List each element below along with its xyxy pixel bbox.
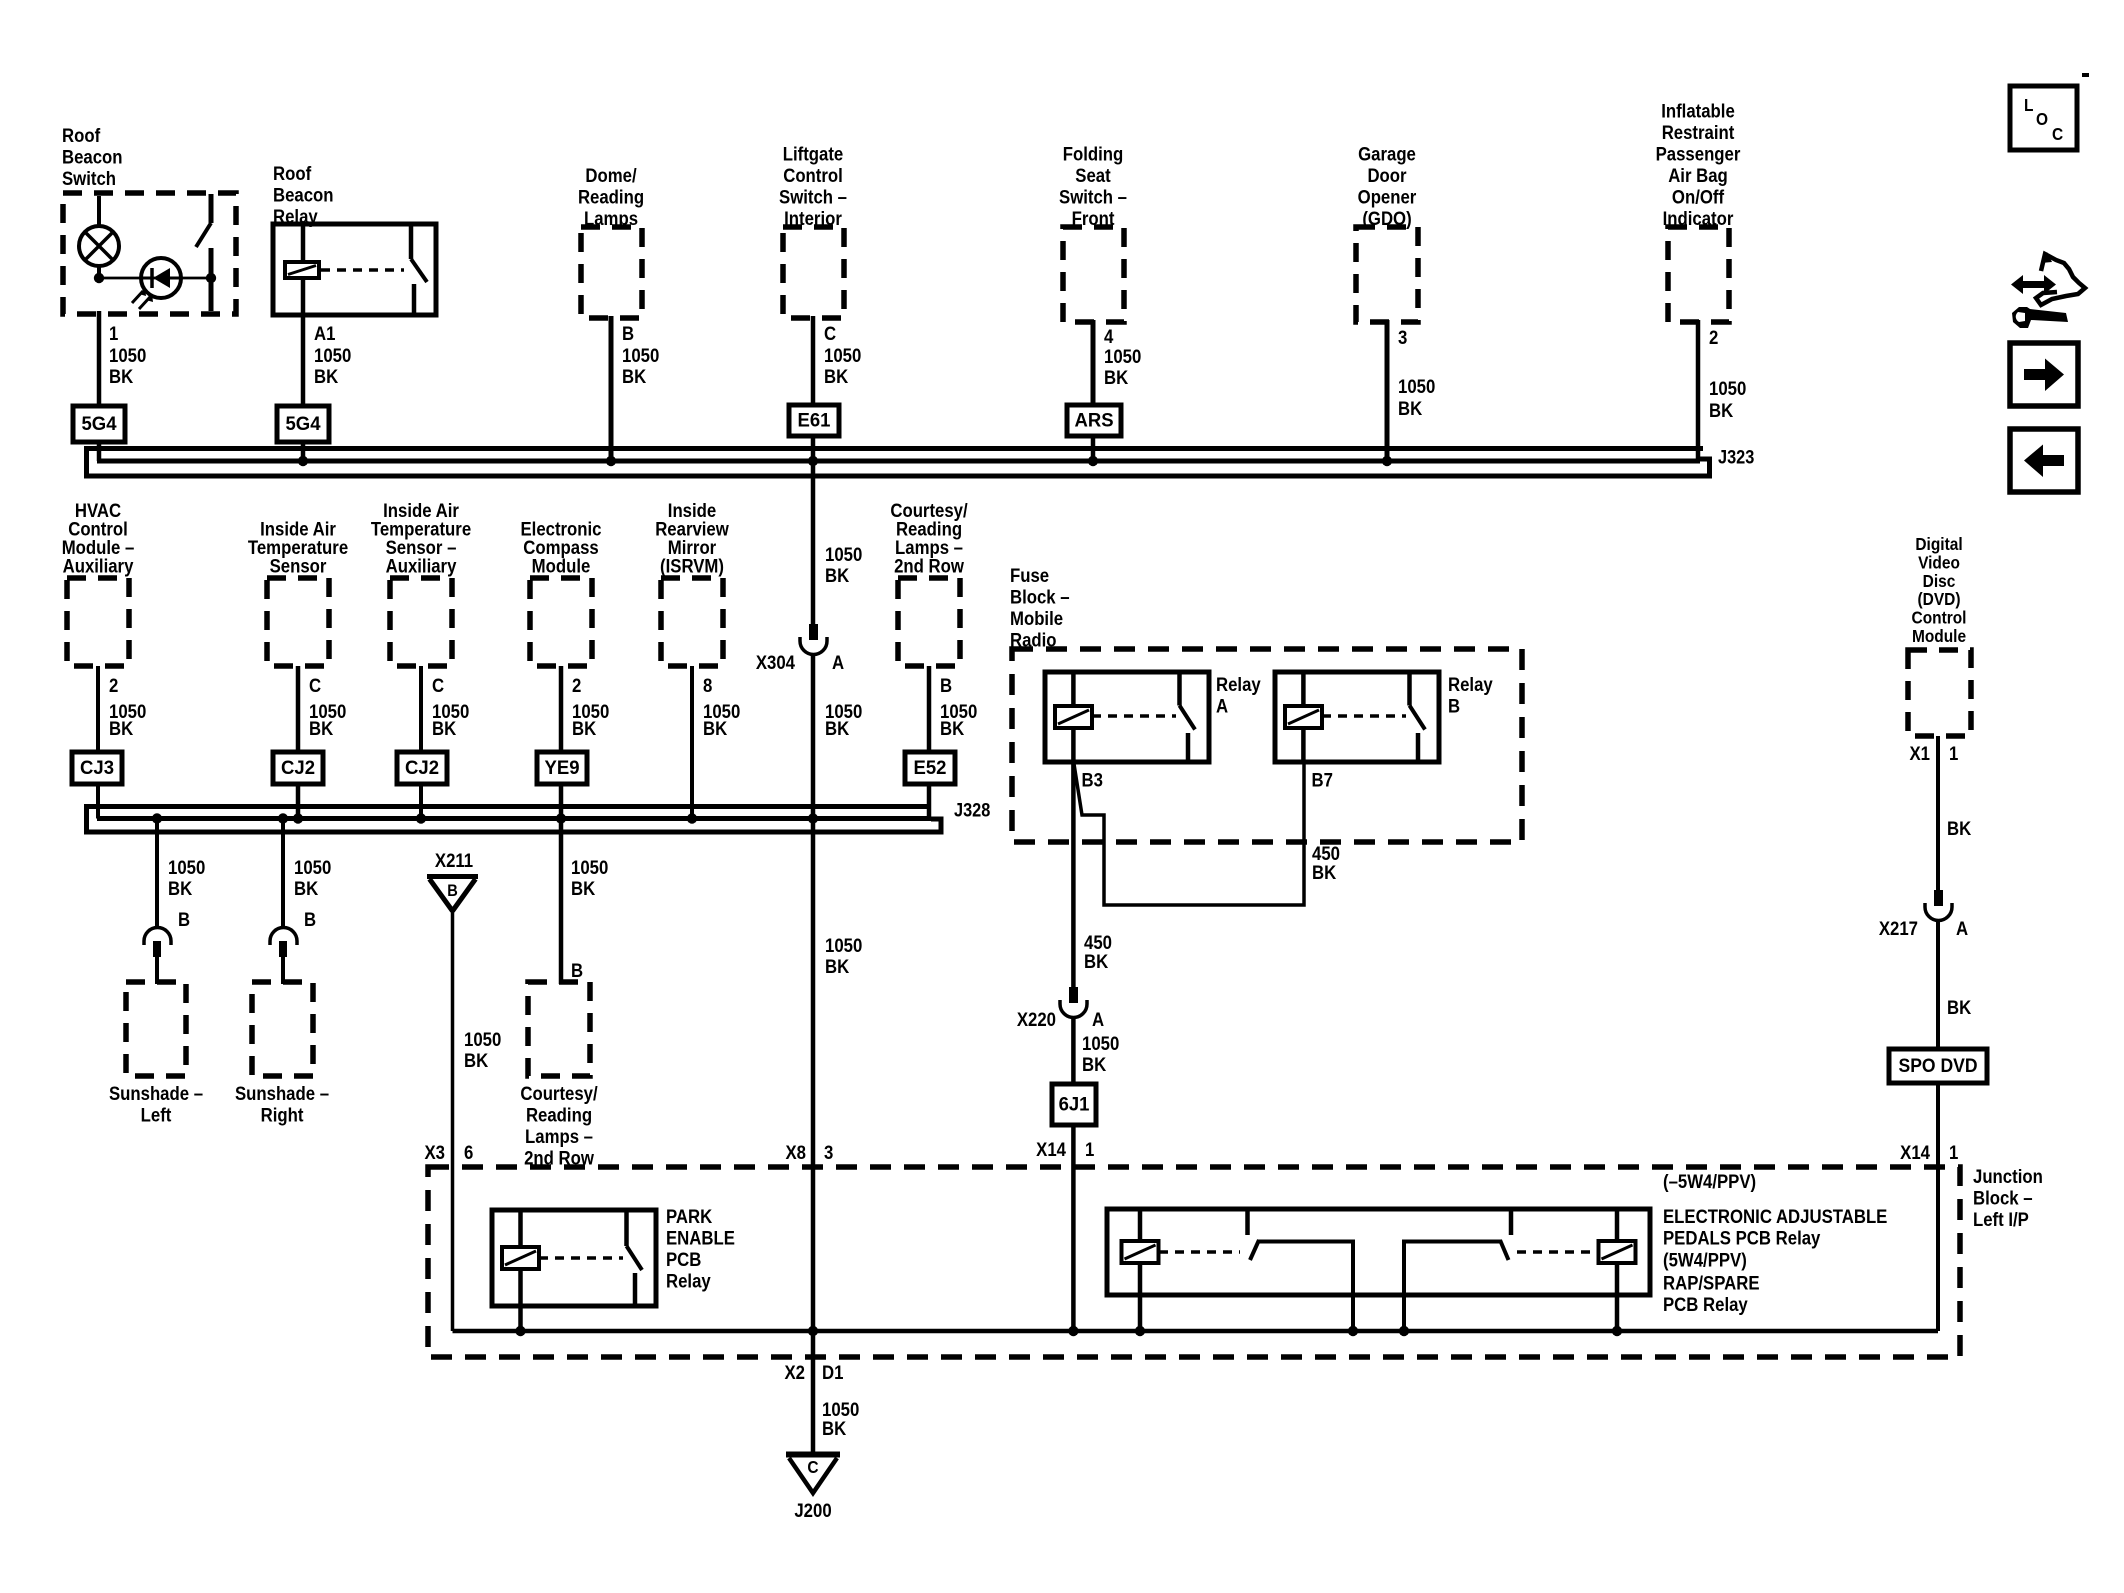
wire Compass pin 2 to YE9	[559, 666, 564, 752]
svg-text:PCB: PCB	[666, 1249, 701, 1270]
svg-text:BK: BK	[825, 718, 849, 739]
svg-text:Switch –: Switch –	[1059, 186, 1127, 207]
svg-text:1: 1	[1085, 1139, 1094, 1160]
svg-text:ARS: ARS	[1074, 410, 1113, 432]
wire 5G4 relay to bus J323	[301, 442, 306, 461]
component Inside Air Temperature Sensor (dashed box)	[267, 578, 329, 666]
svg-text:BK: BK	[824, 366, 848, 387]
junction dot X8 wire on junction bus	[808, 1326, 818, 1336]
relay A dashed link	[1092, 714, 1176, 718]
splice pack bus J328 (inner line)	[97, 816, 931, 821]
connector CJ2 (Temp Sensor)	[273, 752, 323, 784]
svg-text:L: L	[2024, 95, 2033, 115]
svg-text:Junction: Junction	[1973, 1166, 2043, 1187]
connector SPO DVD	[1889, 1049, 1987, 1083]
splice pack bus J328 (outer)	[87, 807, 942, 833]
svg-text:RAP/SPARE: RAP/SPARE	[1663, 1272, 1760, 1293]
junction dots on J328	[152, 813, 162, 823]
wire GDO pin 3 to bus J323	[1385, 320, 1390, 461]
svg-text:Sensor: Sensor	[270, 555, 327, 576]
svg-text:Reading: Reading	[578, 186, 644, 207]
wire ARS to bus J323	[1091, 436, 1096, 461]
svg-text:(DVD): (DVD)	[1918, 589, 1961, 609]
svg-text:J328: J328	[954, 800, 990, 821]
svg-text:CJ2: CJ2	[405, 758, 439, 780]
component Liftgate Control Switch (dashed box)	[783, 227, 844, 318]
svg-text:B: B	[940, 675, 952, 696]
svg-text:BK: BK	[432, 718, 456, 739]
wire X304 to bus J328	[811, 654, 816, 819]
PARK ENABLE PCB Relay box	[492, 1210, 656, 1306]
wire YE9 bus down to Courtesy Lamps 2nd Row box	[559, 819, 564, 985]
svg-text:J323: J323	[1718, 447, 1754, 468]
svg-text:1050: 1050	[1709, 378, 1746, 399]
component Inflatable Restraint Indicator (dashed box)	[1668, 227, 1729, 322]
wire Temp Sensor Aux pin C to CJ2	[419, 666, 423, 752]
svg-text:Relay: Relay	[1216, 674, 1262, 695]
svg-text:Fuse: Fuse	[1010, 565, 1049, 586]
svg-text:Courtesy/: Courtesy/	[520, 1083, 597, 1104]
svg-text:BK: BK	[1947, 818, 1971, 839]
svg-text:BK: BK	[1947, 997, 1971, 1018]
svg-text:1050: 1050	[622, 345, 659, 366]
svg-text:Seat: Seat	[1075, 165, 1110, 186]
svg-text:CJ3: CJ3	[80, 758, 114, 780]
stray mark	[2082, 73, 2089, 77]
svg-text:1050: 1050	[571, 857, 608, 878]
wire X2 D1 down to ground J200	[811, 1331, 816, 1455]
svg-text:Relay: Relay	[1448, 674, 1494, 695]
svg-text:1050: 1050	[314, 345, 351, 366]
component Courtesy/Reading Lamps 2nd Row (dashed box, row2)	[898, 578, 960, 666]
junction dot left switch to bus	[1348, 1326, 1358, 1336]
svg-text:E52: E52	[914, 758, 947, 780]
svg-text:D1: D1	[822, 1362, 843, 1383]
wire X304 bus J328 down to junction block X8 pin 3	[811, 819, 816, 1332]
wire CJ2 aux to bus J328	[419, 784, 423, 819]
svg-text:PCB Relay: PCB Relay	[1663, 1294, 1749, 1315]
wire E61 to bus J323	[811, 436, 816, 461]
svg-text:BK: BK	[1082, 1054, 1106, 1075]
svg-text:Folding: Folding	[1063, 143, 1124, 164]
pedals relay left dashed link	[1159, 1250, 1240, 1254]
wire 5G4 to bus J323	[97, 442, 102, 461]
svg-text:X8: X8	[785, 1142, 806, 1163]
svg-text:Mobile: Mobile	[1010, 608, 1063, 629]
svg-text:X211: X211	[435, 850, 473, 871]
svg-text:Reading: Reading	[526, 1104, 592, 1125]
relay A coil	[1071, 674, 1076, 706]
svg-text:BK: BK	[622, 366, 646, 387]
pedals relay left switch	[1245, 1211, 1250, 1235]
svg-text:Sunshade –: Sunshade –	[109, 1083, 203, 1104]
svg-text:X217: X217	[1879, 918, 1918, 939]
junction dot at switch contact	[206, 273, 216, 283]
PARK relay coil	[518, 1212, 523, 1247]
junction dot right switch to bus	[1399, 1326, 1409, 1336]
wire B3 down to connector X220	[1071, 762, 1076, 987]
splice pack bus J323 (inner line)	[97, 459, 1700, 464]
svg-text:3: 3	[1398, 327, 1407, 348]
wire Dome pin B to bus J323	[609, 316, 614, 461]
svg-text:O: O	[2036, 109, 2048, 129]
pedals relay left coil	[1138, 1211, 1143, 1241]
lamp symbol inside Roof Beacon Switch	[97, 196, 101, 227]
component Fuse Block - Mobile Radio (dashed box)	[1012, 649, 1522, 842]
component Dome/Reading Lamps (dashed box)	[581, 227, 642, 318]
svg-text:8: 8	[703, 675, 712, 696]
junction dot PARK coil to bus	[515, 1326, 525, 1336]
svg-text:Module: Module	[1912, 626, 1966, 646]
pedals relay right dashed link	[1517, 1250, 1598, 1254]
svg-text:Roof: Roof	[62, 125, 101, 146]
component Roof Beacon Relay (solid box)	[273, 224, 436, 315]
pedals relay right coil	[1615, 1211, 1620, 1241]
pedals relay right switch	[1509, 1211, 1514, 1235]
relay switch (Roof Beacon Relay)	[409, 226, 414, 259]
wire Folding Seat pin 4 to ARS	[1091, 320, 1096, 405]
svg-text:4: 4	[1104, 326, 1114, 347]
wire connector to Sunshade Left box	[155, 957, 159, 984]
component Inside Air Temperature Sensor Aux (dashed box)	[390, 578, 452, 666]
svg-text:Switch –: Switch –	[779, 186, 847, 207]
wire Courtesy pin B to E52	[927, 666, 932, 752]
svg-text:X3: X3	[424, 1142, 445, 1163]
wire X217 to SPO DVD	[1936, 920, 1940, 1049]
relay A box (fuse block)	[1045, 672, 1209, 762]
svg-text:3: 3	[824, 1142, 833, 1163]
component Roof Beacon Switch (dashed box)	[63, 193, 236, 314]
svg-text:On/Off: On/Off	[1672, 186, 1725, 207]
svg-text:BK: BK	[825, 956, 849, 977]
component Courtesy/Reading Lamps 2nd Row lower (dashed box)	[528, 982, 590, 1076]
svg-text:BK: BK	[464, 1050, 488, 1071]
svg-text:Restraint: Restraint	[1662, 122, 1735, 143]
svg-text:BK: BK	[314, 366, 338, 387]
relay B box (fuse block)	[1275, 672, 1439, 762]
junction dot X14 6J1 wire on junction bus	[1068, 1326, 1078, 1336]
svg-text:1050: 1050	[464, 1029, 501, 1050]
svg-text:Dome/: Dome/	[585, 165, 636, 186]
svg-text:1050: 1050	[109, 345, 146, 366]
svg-text:BK: BK	[1084, 951, 1108, 972]
connector 5G4 (switch)	[73, 406, 125, 442]
svg-text:ELECTRONIC ADJUSTABLE: ELECTRONIC ADJUSTABLE	[1663, 1206, 1887, 1227]
svg-text:BK: BK	[940, 718, 964, 739]
svg-text:Digital: Digital	[1915, 534, 1962, 554]
wire Liftgate pin C to E61	[811, 316, 816, 405]
wire E52 to bus J328	[927, 784, 932, 819]
svg-text:BK: BK	[1398, 398, 1422, 419]
svg-text:BK: BK	[822, 1418, 846, 1439]
wire CJ2 to bus J328	[296, 784, 301, 819]
wire X220 to 6J1	[1071, 1017, 1076, 1084]
wire Roof Beacon Relay pin A1 down	[301, 313, 306, 407]
wire E61 bus J323 down to connector X304	[811, 461, 816, 624]
connector 6J1	[1052, 1084, 1096, 1125]
svg-text:Block –: Block –	[1010, 586, 1070, 607]
junction dot right coil to bus	[1612, 1326, 1622, 1336]
wire CJ3 to bus J328	[96, 784, 100, 819]
svg-text:2nd Row: 2nd Row	[894, 555, 965, 576]
svg-text:B: B	[1448, 695, 1460, 716]
svg-text:Auxiliary: Auxiliary	[386, 555, 458, 576]
svg-text:B: B	[304, 909, 316, 930]
component Sunshade Left (dashed box)	[126, 982, 186, 1076]
relay A switch	[1177, 674, 1182, 706]
component HVAC Control Module (dashed box)	[67, 578, 129, 666]
connector CJ3	[72, 752, 122, 784]
svg-text:X14: X14	[1036, 1139, 1067, 1160]
svg-text:X1: X1	[1909, 743, 1930, 764]
svg-text:1050: 1050	[294, 857, 331, 878]
svg-text:E61: E61	[798, 410, 831, 432]
component Junction Block - Left I/P (dashed box)	[428, 1167, 1960, 1357]
relay coil (Roof Beacon Relay)	[301, 226, 306, 262]
svg-text:Liftgate: Liftgate	[783, 143, 844, 164]
svg-text:(–5W4/PPV): (–5W4/PPV)	[1663, 1171, 1756, 1192]
splice pack bus J323 (outer)	[87, 449, 1710, 477]
svg-text:Garage: Garage	[1358, 143, 1416, 164]
svg-text:B7: B7	[1312, 769, 1333, 790]
svg-text:C: C	[432, 675, 444, 696]
svg-text:BK: BK	[825, 565, 849, 586]
svg-text:ENABLE: ENABLE	[666, 1227, 735, 1248]
connector CJ2 (Temp Aux)	[397, 752, 447, 784]
wire branch lamp to switch	[99, 277, 211, 280]
svg-text:Disc: Disc	[1923, 571, 1956, 591]
LOC legend box	[2010, 86, 2077, 150]
PARK relay dashed link	[539, 1256, 623, 1260]
svg-text:1050: 1050	[1104, 346, 1141, 367]
svg-text:5G4: 5G4	[286, 414, 321, 436]
svg-text:1: 1	[109, 323, 118, 344]
svg-text:A: A	[1092, 1009, 1104, 1030]
svg-text:(ISRVM): (ISRVM)	[660, 555, 724, 576]
inline connector X220 pin A	[1069, 987, 1078, 1003]
svg-text:YE9: YE9	[545, 758, 580, 780]
svg-text:Video: Video	[1918, 552, 1960, 572]
svg-text:CJ2: CJ2	[281, 758, 315, 780]
wire ISRVM pin 8 to bus J328	[690, 666, 694, 819]
svg-text:BK: BK	[168, 878, 192, 899]
wire connector to Sunshade Right box	[281, 957, 285, 984]
svg-text:Sunshade –: Sunshade –	[235, 1083, 329, 1104]
svg-text:BK: BK	[109, 718, 133, 739]
svg-text:1050: 1050	[824, 345, 861, 366]
svg-text:1050: 1050	[168, 857, 205, 878]
junction block internal bus wire	[453, 1329, 1939, 1334]
svg-text:BK: BK	[1709, 400, 1733, 421]
svg-text:B: B	[447, 882, 458, 900]
svg-text:Roof: Roof	[273, 163, 312, 184]
svg-text:5G4: 5G4	[82, 414, 117, 436]
inline connector (Sunshade Right)	[270, 928, 297, 946]
svg-text:Right: Right	[261, 1104, 304, 1125]
wire Temp Sensor pin C to CJ2	[296, 666, 301, 752]
svg-text:BK: BK	[571, 878, 595, 899]
svg-text:Auxiliary: Auxiliary	[63, 555, 135, 576]
svg-text:X2: X2	[784, 1362, 805, 1383]
svg-text:Door: Door	[1367, 165, 1406, 186]
inline connector X304 pin A	[809, 624, 818, 640]
svg-text:Beacon: Beacon	[62, 146, 123, 167]
inline connector X217 pin A	[1934, 890, 1943, 906]
wire SPO DVD to junction block X14 pin 1	[1936, 1083, 1940, 1331]
arrow button left	[2010, 429, 2078, 492]
junction dot under lamp	[94, 273, 104, 283]
svg-text:A1: A1	[314, 323, 335, 344]
wire B3-B7 450 BK jog	[1074, 762, 1304, 905]
svg-text:BK: BK	[109, 366, 133, 387]
svg-text:PEDALS PCB Relay: PEDALS PCB Relay	[1663, 1227, 1821, 1248]
svg-text:C: C	[309, 675, 321, 696]
component Garage Door Opener (dashed box)	[1356, 227, 1418, 322]
svg-text:A: A	[1956, 918, 1968, 939]
relay coil-switch dashed link	[321, 268, 404, 272]
svg-text:J200: J200	[794, 1500, 831, 1521]
svg-text:1050: 1050	[825, 935, 862, 956]
wire Inflatable Restraint pin 2 to bus J323	[1696, 320, 1701, 459]
svg-text:Block –: Block –	[1973, 1187, 2033, 1208]
svg-text:Opener: Opener	[1358, 186, 1417, 207]
wire J328 to Sunshade Left	[155, 819, 159, 930]
svg-text:X14: X14	[1900, 1142, 1931, 1163]
svg-text:Switch: Switch	[62, 168, 116, 189]
svg-text:BK: BK	[572, 718, 596, 739]
arrow button right	[2010, 343, 2078, 406]
vehicle adjust icon (double arrow, car outline, wrench)	[2011, 275, 2056, 294]
wire 6J1 to junction block X14 pin 1	[1071, 1125, 1076, 1331]
svg-text:Inflatable: Inflatable	[1661, 100, 1735, 121]
svg-text:Left I/P: Left I/P	[1973, 1209, 2029, 1230]
component ISRVM (dashed box)	[661, 578, 723, 666]
junction dots on J323	[298, 456, 308, 466]
component DVD Control Module (dashed box)	[1908, 650, 1971, 736]
svg-text:6J1: 6J1	[1059, 1094, 1090, 1116]
svg-text:BK: BK	[1312, 862, 1336, 883]
svg-text:1050: 1050	[825, 544, 862, 565]
svg-text:Control: Control	[783, 165, 843, 186]
relay B switch	[1407, 674, 1412, 706]
svg-text:SPO DVD: SPO DVD	[1899, 1054, 1978, 1076]
svg-text:Air Bag: Air Bag	[1668, 165, 1728, 186]
connector E61	[789, 405, 839, 436]
svg-text:A: A	[1216, 695, 1228, 716]
svg-text:C: C	[2052, 124, 2063, 144]
svg-text:B: B	[571, 960, 583, 981]
connector 5G4 (relay)	[277, 406, 329, 442]
svg-text:Module: Module	[532, 555, 591, 576]
component Sunshade Right (dashed box)	[252, 982, 313, 1076]
PARK relay switch	[624, 1212, 629, 1246]
switch contact inside Roof Beacon Switch	[209, 194, 214, 223]
svg-text:1050: 1050	[1082, 1033, 1119, 1054]
svg-text:PARK: PARK	[666, 1206, 712, 1227]
LED indicator symbol inside Roof Beacon Switch	[141, 258, 181, 298]
svg-text:Passenger: Passenger	[1656, 143, 1741, 164]
component Folding Seat Switch (dashed box)	[1063, 227, 1124, 322]
relay B coil	[1301, 674, 1306, 706]
svg-text:2: 2	[1709, 327, 1718, 348]
connector ARS	[1067, 405, 1121, 436]
svg-text:C: C	[824, 323, 836, 344]
wire Roof Beacon Switch pin 1 down	[97, 311, 102, 407]
wire DVD pin X1-1 down to X217	[1936, 736, 1940, 890]
svg-text:Left: Left	[141, 1104, 172, 1125]
relay B dashed link	[1322, 714, 1406, 718]
svg-text:B: B	[178, 909, 190, 930]
wire YE9 to bus J328	[559, 784, 564, 819]
wire J328 to Sunshade Right	[281, 819, 285, 930]
svg-text:2: 2	[572, 675, 581, 696]
component Electronic Compass Module (dashed box)	[530, 578, 592, 666]
inline connector (Sunshade Left)	[144, 928, 171, 946]
svg-text:1: 1	[1949, 1142, 1958, 1163]
svg-text:BK: BK	[309, 718, 333, 739]
junction dot left coil to bus	[1135, 1326, 1145, 1336]
wire X211 down to junction block X3 pin 6	[451, 911, 455, 1331]
svg-text:2: 2	[109, 675, 118, 696]
ground symbol J200 pin C	[786, 1452, 840, 1458]
svg-text:6: 6	[464, 1142, 473, 1163]
svg-text:1: 1	[1949, 743, 1958, 764]
wire HVAC pin 2 to CJ3	[96, 666, 100, 752]
svg-text:(5W4/PPV): (5W4/PPV)	[1663, 1249, 1747, 1270]
svg-text:1050: 1050	[1398, 376, 1435, 397]
connector E52	[905, 752, 955, 784]
svg-text:BK: BK	[294, 878, 318, 899]
svg-text:Control: Control	[1912, 608, 1967, 628]
svg-text:B3: B3	[1082, 769, 1103, 790]
ELECTRONIC ADJUSTABLE PEDALS / RAP SPARE PCB relay box	[1107, 1209, 1650, 1295]
connector X211 triangle pin B	[427, 874, 478, 879]
svg-text:Beacon: Beacon	[273, 184, 334, 205]
svg-text:A: A	[832, 652, 844, 673]
svg-text:BK: BK	[703, 718, 727, 739]
connector YE9	[537, 752, 587, 784]
svg-text:Lamps –: Lamps –	[525, 1126, 593, 1147]
svg-text:Relay: Relay	[666, 1270, 712, 1291]
svg-text:B: B	[622, 323, 634, 344]
svg-text:C: C	[807, 1457, 818, 1477]
svg-text:X304: X304	[756, 652, 796, 673]
svg-text:X220: X220	[1017, 1009, 1056, 1030]
svg-text:BK: BK	[1104, 367, 1128, 388]
